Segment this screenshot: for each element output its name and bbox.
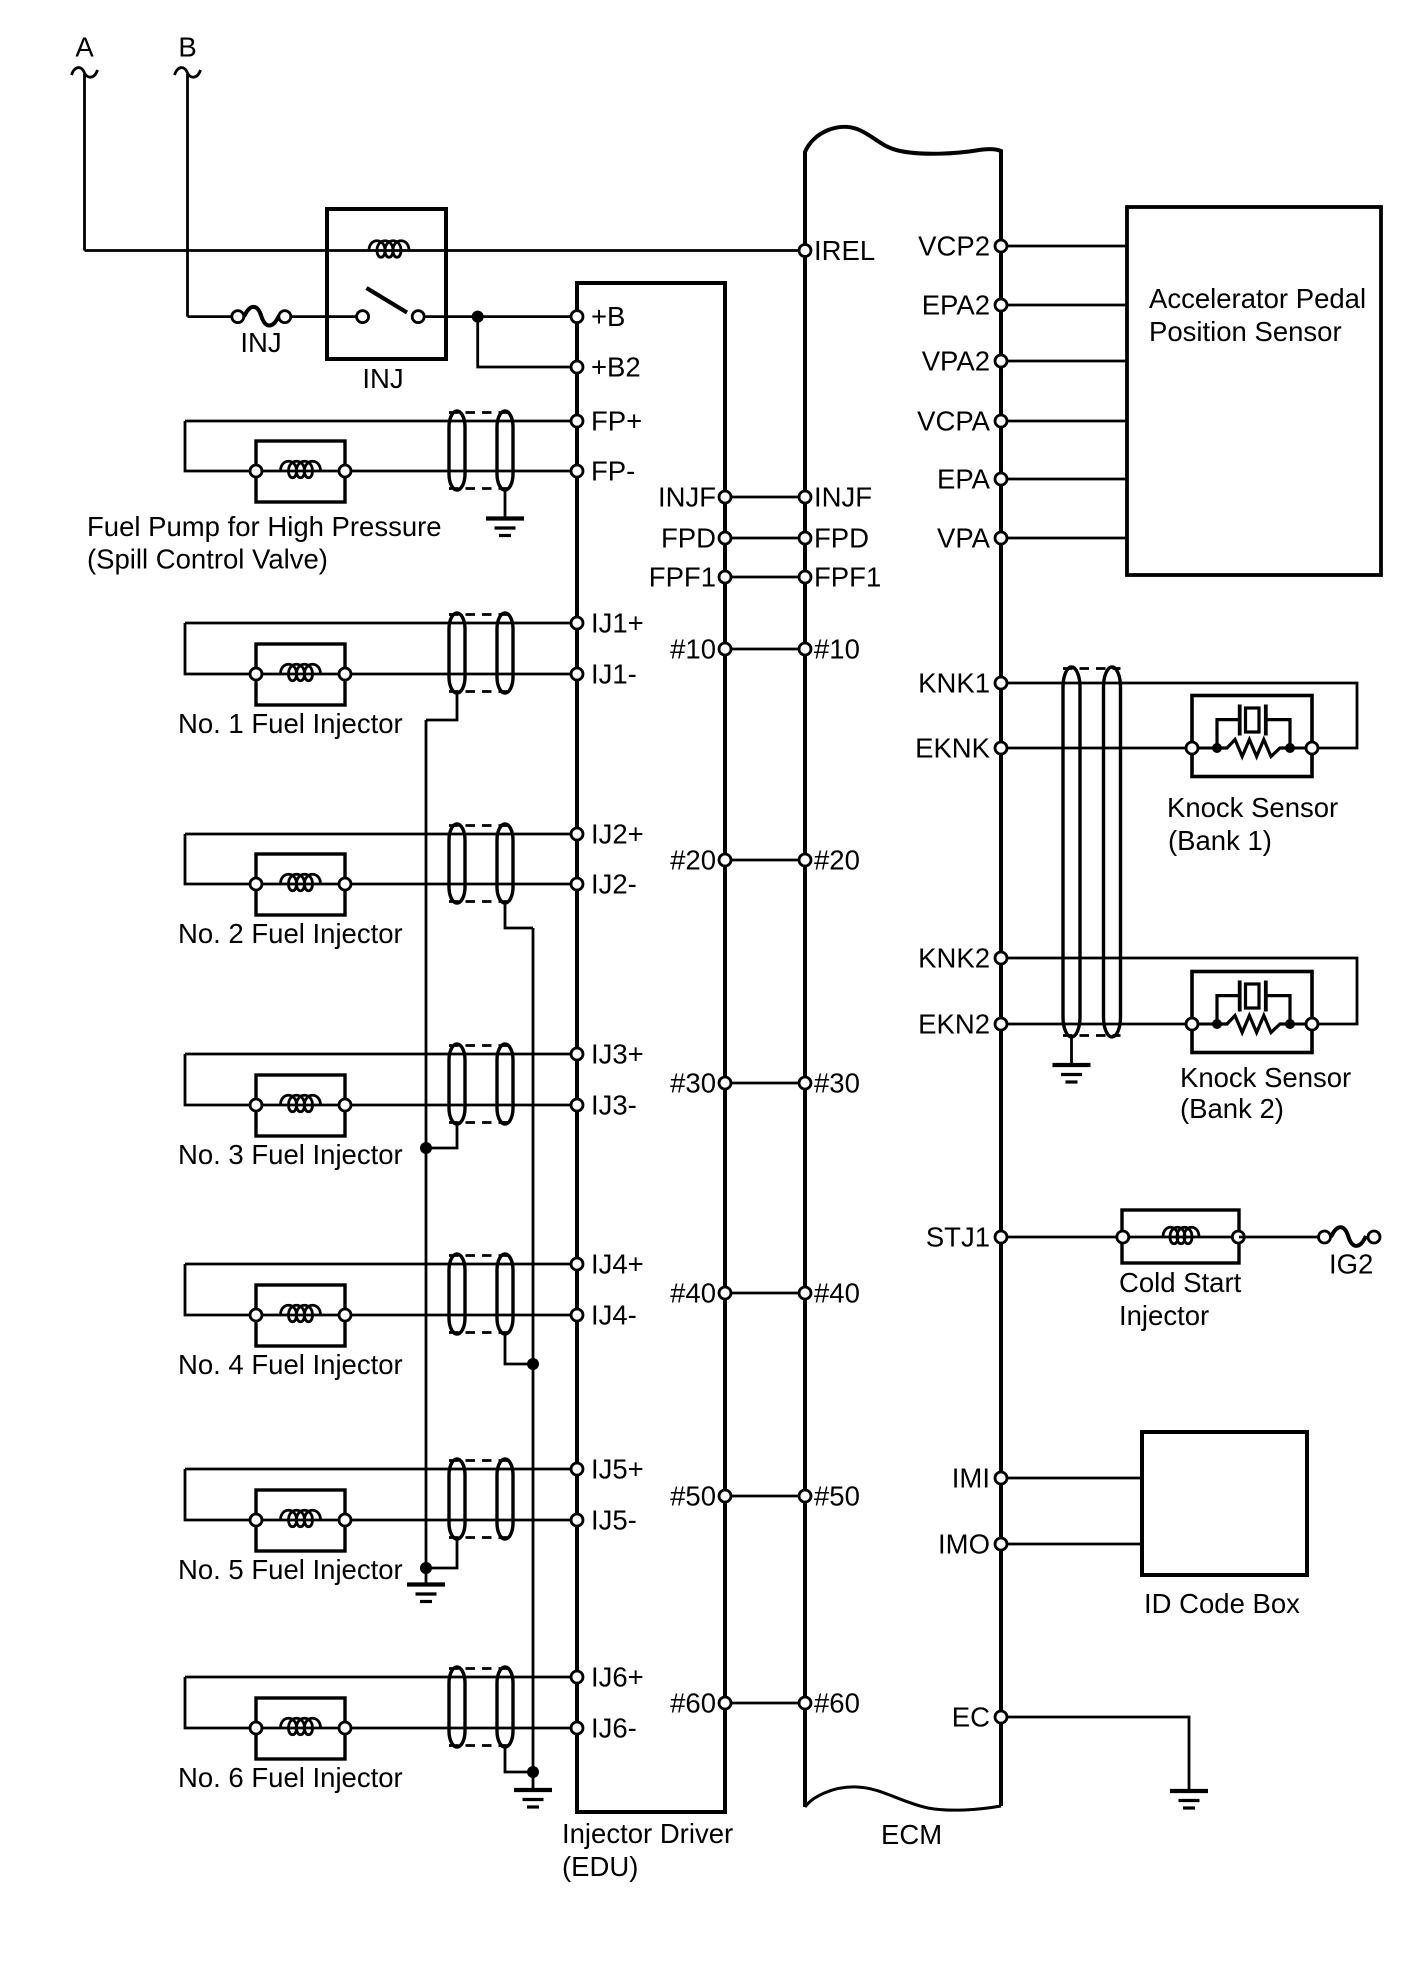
svg-text:#10: #10 bbox=[670, 634, 716, 665]
terminal VPA (ECM right) bbox=[995, 532, 1007, 544]
junction shield injector 5 bbox=[420, 1562, 432, 1574]
terminal IJ5- (EDU) bbox=[571, 1514, 583, 1526]
wire VCPA to APP sensor bbox=[1001, 420, 1127, 423]
label No. 6 Fuel Injector bbox=[178, 1762, 403, 1793]
injector 5 terminals bbox=[250, 1514, 351, 1526]
terminal EPA2 (ECM right) bbox=[995, 299, 1007, 311]
ECM box (torn-edge outline) bbox=[805, 127, 1001, 1810]
svg-text:B: B bbox=[178, 32, 196, 63]
shielded pair (injector 6) bbox=[449, 1667, 513, 1747]
wire INJF EDU-ECM bbox=[725, 496, 805, 499]
svg-text:INJF: INJF bbox=[814, 482, 872, 513]
svg-text:#30: #30 bbox=[814, 1068, 860, 1099]
fusible link INJ bbox=[232, 307, 291, 326]
ground (fuel pump shield) bbox=[486, 519, 524, 536]
terminal STJ1 (ECM right) bbox=[995, 1231, 1007, 1243]
terminal VCPA (ECM right) bbox=[995, 415, 1007, 427]
terminal IJ5+ (EDU) bbox=[571, 1463, 583, 1475]
svg-text:Fuel Pump for High Pressure: Fuel Pump for High Pressure bbox=[87, 511, 442, 542]
svg-text:#50: #50 bbox=[814, 1481, 860, 1512]
label Knock Sensor (Bank 1) bbox=[1167, 792, 1338, 856]
terminal #10 (EDU right) bbox=[719, 643, 731, 655]
svg-text:INJF: INJF bbox=[658, 482, 716, 513]
wire VPA to APP sensor bbox=[1001, 537, 1127, 540]
wire FPF1 EDU-ECM bbox=[725, 576, 805, 579]
wire through injector 5 coil bbox=[256, 1519, 345, 1522]
svg-text:FPD: FPD bbox=[661, 523, 716, 554]
pin label FP- (EDU) bbox=[591, 456, 635, 487]
wire #60 EDU-ECM bbox=[725, 1702, 805, 1705]
pin label IMI (ECM right) bbox=[952, 1463, 990, 1494]
terminal #30 (EDU right) bbox=[719, 1077, 731, 1089]
terminal IMI (ECM right) bbox=[995, 1472, 1007, 1484]
terminal INJF (EDU right) bbox=[719, 491, 731, 503]
pin label #10 (EDU right) bbox=[670, 634, 716, 665]
svg-text:EPA: EPA bbox=[937, 464, 991, 495]
wire IJ5- line bbox=[345, 1519, 577, 1522]
injector 1 coil bbox=[281, 664, 321, 681]
terminal KNK1 (ECM right) bbox=[995, 677, 1007, 689]
wire fusible link to relay switch bbox=[291, 315, 356, 318]
svg-text:Position Sensor: Position Sensor bbox=[1149, 316, 1342, 347]
terminal FP+ (EDU) bbox=[571, 415, 583, 427]
svg-text:IJ1+: IJ1+ bbox=[591, 608, 644, 639]
pin label #40 (EDU right) bbox=[670, 1278, 716, 1309]
label ID Code Box bbox=[1144, 1588, 1300, 1619]
node B (label, break symbol, feeder wire) bbox=[175, 32, 201, 317]
wire #10 EDU-ECM bbox=[725, 648, 805, 651]
injector 2 coil box bbox=[256, 854, 345, 915]
wire FP- line bbox=[345, 470, 577, 473]
injector 2 terminals bbox=[250, 878, 351, 890]
shielded pair (fuel pump) bbox=[449, 411, 513, 490]
svg-text:Accelerator Pedal: Accelerator Pedal bbox=[1149, 283, 1366, 314]
fuel pump terminals bbox=[250, 465, 351, 477]
wire IMI bbox=[1001, 1477, 1142, 1480]
injector 3 terminals bbox=[250, 1099, 351, 1111]
pin label FPF1 (EDU right) bbox=[649, 562, 716, 593]
wire KNK2 bbox=[1001, 958, 1357, 1024]
pin label #10 (ECM left) bbox=[814, 634, 860, 665]
pin label IJ6- (EDU) bbox=[591, 1713, 637, 1744]
svg-text:+B: +B bbox=[591, 301, 625, 332]
svg-text:+B2: +B2 bbox=[591, 352, 641, 383]
svg-text:IJ5-: IJ5- bbox=[591, 1505, 637, 1536]
injector 2 coil bbox=[281, 874, 321, 891]
pin label #60 (ECM left) bbox=[814, 1688, 860, 1719]
wire shield drain injector 6 bbox=[505, 1747, 533, 1772]
wire KNK1 bbox=[1001, 683, 1357, 748]
svg-text:ID Code Box: ID Code Box bbox=[1144, 1588, 1300, 1619]
svg-text:EC: EC bbox=[952, 1702, 990, 1733]
terminal FPD (EDU right) bbox=[719, 532, 731, 544]
label Knock Sensor (Bank 2) bbox=[1180, 1062, 1351, 1124]
svg-text:#40: #40 bbox=[670, 1278, 716, 1309]
svg-text:IJ1-: IJ1- bbox=[591, 659, 637, 690]
wire #20 EDU-ECM bbox=[725, 859, 805, 862]
svg-text:IJ6+: IJ6+ bbox=[591, 1662, 644, 1693]
pin label #40 (ECM left) bbox=[814, 1278, 860, 1309]
terminal EKN2 (ECM right) bbox=[995, 1018, 1007, 1030]
svg-text:KNK2: KNK2 bbox=[918, 943, 990, 974]
pin label #60 (EDU right) bbox=[670, 1688, 716, 1719]
pin label IJ2+ (EDU) bbox=[591, 819, 644, 850]
terminal IREL (ECM) bbox=[799, 245, 811, 257]
node A (label, break symbol, feeder wire) bbox=[72, 32, 98, 251]
injector 3 coil box bbox=[256, 1075, 345, 1136]
svg-text:#40: #40 bbox=[814, 1278, 860, 1309]
fusible link IG2 bbox=[1319, 1227, 1381, 1246]
injector 4 terminals bbox=[250, 1309, 351, 1321]
junction shield injector 4 bbox=[527, 1358, 539, 1370]
wire VPA2 to APP sensor bbox=[1001, 360, 1127, 363]
wire IJ5+ line bbox=[185, 1468, 577, 1471]
svg-text:FP+: FP+ bbox=[591, 406, 642, 437]
label No. 2 Fuel Injector bbox=[178, 918, 403, 949]
pin label KNK2 (ECM right) bbox=[918, 943, 990, 974]
terminal FPF1 (ECM left) bbox=[799, 571, 811, 583]
terminal IJ4+ (EDU) bbox=[571, 1258, 583, 1270]
svg-text:FP-: FP- bbox=[591, 456, 635, 487]
svg-text:Cold Start: Cold Start bbox=[1119, 1267, 1242, 1298]
terminal IJ2- (EDU) bbox=[571, 878, 583, 890]
svg-text:(Bank 2): (Bank 2) bbox=[1180, 1093, 1284, 1124]
shielded pair (injector 4) bbox=[449, 1254, 513, 1334]
cold start injector box bbox=[1122, 1210, 1239, 1263]
terminal #10 (ECM left) bbox=[799, 643, 811, 655]
svg-text:IJ3-: IJ3- bbox=[591, 1090, 637, 1121]
pin label FPD (ECM left) bbox=[814, 523, 869, 554]
svg-text:No. 5 Fuel Injector: No. 5 Fuel Injector bbox=[178, 1554, 403, 1585]
injector 6 terminals bbox=[250, 1722, 351, 1734]
pin label EC (ECM right) bbox=[952, 1702, 990, 1733]
svg-text:VCP2: VCP2 bbox=[918, 231, 990, 262]
pin label IJ2- (EDU) bbox=[591, 869, 637, 900]
pin label EPA (ECM right) bbox=[937, 464, 991, 495]
svg-text:#20: #20 bbox=[670, 845, 716, 876]
svg-text:IJ4-: IJ4- bbox=[591, 1300, 637, 1331]
pin label IREL bbox=[814, 235, 875, 266]
wire to +B2 bbox=[478, 317, 577, 367]
terminal VCP2 (ECM right) bbox=[995, 240, 1007, 252]
svg-text:#60: #60 bbox=[814, 1688, 860, 1719]
terminal #20 (ECM left) bbox=[799, 854, 811, 866]
wire IJ2+ line bbox=[185, 833, 577, 836]
svg-text:No. 2 Fuel Injector: No. 2 Fuel Injector bbox=[178, 918, 403, 949]
svg-text:IMI: IMI bbox=[952, 1463, 990, 1494]
wire fuel pump left leg bbox=[185, 421, 256, 471]
cold start injector coil bbox=[1163, 1227, 1199, 1244]
svg-text:INJ: INJ bbox=[240, 327, 281, 358]
svg-text:FPD: FPD bbox=[814, 523, 869, 554]
ground (EC) bbox=[1170, 1791, 1208, 1808]
pin label #30 (EDU right) bbox=[670, 1068, 716, 1099]
label ECM bbox=[881, 1819, 942, 1850]
wire through injector 1 coil bbox=[256, 673, 345, 676]
svg-text:Injector Driver: Injector Driver bbox=[562, 1818, 733, 1849]
svg-text:IJ4+: IJ4+ bbox=[591, 1249, 644, 1280]
wire shield drain injector 3 bbox=[426, 1124, 457, 1148]
svg-text:#50: #50 bbox=[670, 1481, 716, 1512]
wire #40 EDU-ECM bbox=[725, 1292, 805, 1295]
ground (left shield bus) bbox=[407, 1568, 445, 1602]
pin label IJ6+ (EDU) bbox=[591, 1662, 644, 1693]
wire shield bus right (x=533) bbox=[532, 928, 535, 1772]
terminal FPD (ECM left) bbox=[799, 532, 811, 544]
injector 4 coil bbox=[281, 1305, 321, 1322]
pin label FPF1 (ECM left) bbox=[814, 562, 881, 593]
label Injector Driver (EDU) bbox=[562, 1818, 733, 1882]
shielded pair (injector 3) bbox=[449, 1044, 513, 1124]
injector 4 coil box bbox=[256, 1285, 345, 1346]
wire injector 3 left leg bbox=[185, 1054, 256, 1105]
svg-text:VPA: VPA bbox=[937, 523, 991, 554]
pin label +B2 (EDU) bbox=[591, 352, 641, 383]
pin label KNK1 (ECM right) bbox=[918, 668, 990, 699]
wire #50 EDU-ECM bbox=[725, 1495, 805, 1498]
ID code box bbox=[1142, 1432, 1307, 1575]
label No. 5 Fuel Injector bbox=[178, 1554, 403, 1585]
pin label +B (EDU) bbox=[591, 301, 625, 332]
pin label IMO (ECM right) bbox=[938, 1529, 990, 1560]
wire injector 4 left leg bbox=[185, 1264, 256, 1315]
terminal #20 (EDU right) bbox=[719, 854, 731, 866]
pin label IJ5- (EDU) bbox=[591, 1505, 637, 1536]
svg-text:Injector: Injector bbox=[1119, 1300, 1209, 1331]
injector 5 coil box bbox=[256, 1490, 345, 1551]
wire VCP2 to APP sensor bbox=[1001, 245, 1127, 248]
pin label VCPA (ECM right) bbox=[917, 406, 991, 437]
wire B to fusible link bbox=[188, 315, 233, 318]
wire STJ1 to cold start injector bbox=[1001, 1236, 1122, 1239]
pin label IJ1- (EDU) bbox=[591, 659, 637, 690]
wire injector 1 left leg bbox=[185, 623, 256, 674]
wire EC to ground bbox=[1001, 1717, 1189, 1790]
wire cold start injector to IG2 bbox=[1239, 1236, 1324, 1239]
wire IJ3+ line bbox=[185, 1053, 577, 1056]
cold start injector terminals bbox=[1117, 1231, 1245, 1243]
label INJ (fusible link) bbox=[240, 327, 281, 358]
svg-text:STJ1: STJ1 bbox=[926, 1222, 990, 1253]
wire FP+ line bbox=[185, 420, 577, 423]
svg-text:EKNK: EKNK bbox=[915, 733, 991, 764]
svg-text:IJ3+: IJ3+ bbox=[591, 1039, 644, 1070]
wire shield drain injector 1 bbox=[426, 693, 457, 720]
junction shield injector 6 bbox=[527, 1766, 539, 1778]
wire injector 2 left leg bbox=[185, 834, 256, 884]
terminal #30 (ECM left) bbox=[799, 1077, 811, 1089]
svg-text:EKN2: EKN2 bbox=[918, 1009, 990, 1040]
terminal #60 (ECM left) bbox=[799, 1697, 811, 1709]
svg-text:IG2: IG2 bbox=[1329, 1249, 1373, 1280]
shielded pair (knock sensors) bbox=[1063, 667, 1121, 1037]
pin label #50 (EDU right) bbox=[670, 1481, 716, 1512]
accelerator pedal position sensor box bbox=[1127, 207, 1381, 575]
svg-text:#20: #20 bbox=[814, 845, 860, 876]
label No. 3 Fuel Injector bbox=[178, 1139, 403, 1170]
svg-text:IREL: IREL bbox=[814, 235, 875, 266]
wire EPA to APP sensor bbox=[1001, 478, 1127, 481]
label INJ (relay) bbox=[362, 363, 403, 394]
svg-text:IMO: IMO bbox=[938, 1529, 990, 1560]
svg-text:A: A bbox=[75, 32, 94, 63]
svg-text:IJ6-: IJ6- bbox=[591, 1713, 637, 1744]
terminal +B2 (EDU) bbox=[571, 361, 583, 373]
pin label VCP2 (ECM right) bbox=[918, 231, 990, 262]
wire through injector 4 coil bbox=[256, 1314, 345, 1317]
wire IJ6- line bbox=[345, 1727, 577, 1730]
pin label IJ4- (EDU) bbox=[591, 1300, 637, 1331]
wire through injector 3 coil bbox=[256, 1104, 345, 1107]
terminal IJ2+ (EDU) bbox=[571, 828, 583, 840]
label Fuel Pump for High Pressure bbox=[87, 511, 442, 575]
EDU box (Injector Driver) bbox=[577, 283, 725, 1812]
wire shield drain injector 4 bbox=[505, 1334, 533, 1364]
pin label IJ1+ (EDU) bbox=[591, 608, 644, 639]
pin label EKNK (ECM right) bbox=[915, 733, 991, 764]
svg-text:No. 3 Fuel Injector: No. 3 Fuel Injector bbox=[178, 1139, 403, 1170]
wire through injector 6 coil bbox=[256, 1727, 345, 1730]
shielded pair (injector 2) bbox=[449, 824, 513, 903]
ground (right shield bus) bbox=[514, 1772, 552, 1807]
svg-text:VPA2: VPA2 bbox=[922, 346, 990, 377]
terminal IJ3+ (EDU) bbox=[571, 1048, 583, 1060]
injector 6 coil box bbox=[256, 1698, 345, 1759]
pin label #30 (ECM left) bbox=[814, 1068, 860, 1099]
terminal IJ6+ (EDU) bbox=[571, 1671, 583, 1683]
wire through injector 2 coil bbox=[256, 883, 345, 886]
terminal FP- (EDU) bbox=[571, 465, 583, 477]
wire IJ3- line bbox=[345, 1104, 577, 1107]
svg-text:INJ: INJ bbox=[362, 363, 403, 394]
wire through fuel pump coil bbox=[256, 470, 345, 473]
terminal +B (EDU) bbox=[571, 311, 583, 323]
wire IJ2- line bbox=[345, 883, 577, 886]
terminal FPF1 (EDU right) bbox=[719, 571, 731, 583]
terminal IJ6- (EDU) bbox=[571, 1722, 583, 1734]
svg-text:IJ2-: IJ2- bbox=[591, 869, 637, 900]
wire knock shield drain bbox=[1070, 1037, 1073, 1064]
svg-text:IJ2+: IJ2+ bbox=[591, 819, 644, 850]
wire IJ1+ line bbox=[185, 622, 577, 625]
label No. 4 Fuel Injector bbox=[178, 1349, 403, 1380]
wire shield drain injector 5 bbox=[426, 1539, 457, 1568]
pin label IJ3- (EDU) bbox=[591, 1090, 637, 1121]
terminal #50 (EDU right) bbox=[719, 1490, 731, 1502]
junction +B/+B2 bbox=[472, 311, 484, 323]
pin label IJ3+ (EDU) bbox=[591, 1039, 644, 1070]
wire IJ6+ line bbox=[185, 1676, 577, 1679]
wire EKN2 bbox=[1001, 1023, 1192, 1026]
svg-text:IJ5+: IJ5+ bbox=[591, 1454, 644, 1485]
pin label VPA2 (ECM right) bbox=[922, 346, 990, 377]
terminal EC (ECM right) bbox=[995, 1711, 1007, 1723]
svg-text:KNK1: KNK1 bbox=[918, 668, 990, 699]
svg-text:FPF1: FPF1 bbox=[814, 562, 881, 593]
svg-text:No. 6 Fuel Injector: No. 6 Fuel Injector bbox=[178, 1762, 403, 1793]
wire IJ4- line bbox=[345, 1314, 577, 1317]
injector 1 terminals bbox=[250, 668, 351, 680]
pin label #20 (EDU right) bbox=[670, 845, 716, 876]
wire shield drain (fuel pump) bbox=[504, 490, 507, 518]
label IG2 bbox=[1329, 1249, 1373, 1280]
svg-text:(Bank 1): (Bank 1) bbox=[1168, 825, 1272, 856]
wire #30 EDU-ECM bbox=[725, 1082, 805, 1085]
label No. 1 Fuel Injector bbox=[178, 708, 403, 739]
wire EPA2 to APP sensor bbox=[1001, 304, 1127, 307]
svg-text:#30: #30 bbox=[670, 1068, 716, 1099]
svg-text:No. 1 Fuel Injector: No. 1 Fuel Injector bbox=[178, 708, 403, 739]
wire EKNK bbox=[1001, 747, 1192, 750]
terminal IJ3- (EDU) bbox=[571, 1099, 583, 1111]
terminal IJ1+ (EDU) bbox=[571, 617, 583, 629]
knock sensor (Bank 1) bbox=[1186, 696, 1318, 777]
terminal EPA (ECM right) bbox=[995, 473, 1007, 485]
wire injector 6 left leg bbox=[185, 1677, 256, 1728]
terminal IMO (ECM right) bbox=[995, 1538, 1007, 1550]
terminal IJ4- (EDU) bbox=[571, 1309, 583, 1321]
wire shield drain injector 2 bbox=[505, 903, 533, 928]
svg-text:Knock Sensor: Knock Sensor bbox=[1180, 1062, 1351, 1093]
wire injector 5 left leg bbox=[185, 1469, 256, 1520]
terminal #60 (EDU right) bbox=[719, 1697, 731, 1709]
injector 6 coil bbox=[281, 1718, 321, 1735]
svg-text:ECM: ECM bbox=[881, 1819, 942, 1850]
terminal VPA2 (ECM right) bbox=[995, 355, 1007, 367]
injector 1 coil box bbox=[256, 644, 345, 705]
wire A to IREL (relay coil line) bbox=[85, 249, 806, 252]
wire shield bus left (x=426) bbox=[425, 720, 428, 1568]
pin label INJF (EDU right) bbox=[658, 482, 716, 513]
pin label #20 (ECM left) bbox=[814, 845, 860, 876]
svg-text:(EDU): (EDU) bbox=[562, 1851, 638, 1882]
injector 5 coil bbox=[281, 1510, 321, 1527]
terminal EKNK (ECM right) bbox=[995, 742, 1007, 754]
shielded pair (injector 5) bbox=[449, 1459, 513, 1539]
svg-text:No. 4 Fuel Injector: No. 4 Fuel Injector bbox=[178, 1349, 403, 1380]
svg-text:EPA2: EPA2 bbox=[922, 290, 990, 321]
wire through cold start injector bbox=[1122, 1236, 1239, 1239]
shielded pair (injector 1) bbox=[449, 613, 513, 693]
pin label STJ1 (ECM right) bbox=[926, 1222, 990, 1253]
pin label IJ4+ (EDU) bbox=[591, 1249, 644, 1280]
knock sensor (Bank 2) bbox=[1186, 972, 1318, 1053]
terminal INJF (ECM left) bbox=[799, 491, 811, 503]
pin label FP+ (EDU) bbox=[591, 406, 642, 437]
terminal KNK2 (ECM right) bbox=[995, 952, 1007, 964]
svg-text:#60: #60 bbox=[670, 1688, 716, 1719]
wire IJ4+ line bbox=[185, 1263, 577, 1266]
label Cold Start Injector bbox=[1119, 1267, 1242, 1331]
fuel pump coil L1 bbox=[281, 461, 321, 478]
pin label VPA (ECM right) bbox=[937, 523, 991, 554]
terminal #50 (ECM left) bbox=[799, 1490, 811, 1502]
wire FPD EDU-ECM bbox=[725, 537, 805, 540]
pin label EKN2 (ECM right) bbox=[918, 1009, 990, 1040]
fuel pump coil box bbox=[256, 441, 345, 502]
wire relay switch to +B bbox=[426, 315, 577, 318]
svg-text:(Spill Control Valve): (Spill Control Valve) bbox=[87, 544, 328, 575]
terminal #40 (EDU right) bbox=[719, 1287, 731, 1299]
svg-text:FPF1: FPF1 bbox=[649, 562, 716, 593]
junction shield injector 3 bbox=[420, 1142, 432, 1154]
terminal #40 (ECM left) bbox=[799, 1287, 811, 1299]
relay INJ (box, coil, switch) bbox=[327, 209, 446, 359]
terminal IJ1- (EDU) bbox=[571, 668, 583, 680]
pin label IJ5+ (EDU) bbox=[591, 1454, 644, 1485]
ground (knock shield) bbox=[1053, 1065, 1091, 1082]
pin label EPA2 (ECM right) bbox=[922, 290, 990, 321]
